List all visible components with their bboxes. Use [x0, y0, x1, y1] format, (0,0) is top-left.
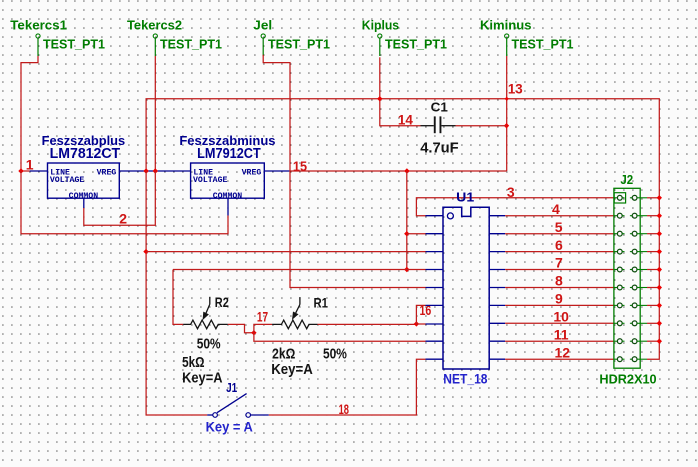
wire net 17 junction up to R1	[254, 324, 272, 332]
svg-text:18: 18	[339, 401, 350, 417]
wire net Tekercs2 drop	[154, 56, 156, 171]
svg-text:6: 6	[555, 237, 563, 253]
svg-text:15: 15	[293, 158, 307, 174]
svg-text:Tekercs2: Tekercs2	[127, 18, 182, 33]
svg-text:TEST_PT1: TEST_PT1	[268, 36, 330, 51]
svg-text:14: 14	[398, 111, 413, 127]
label 17	[257, 308, 268, 324]
svg-text:VOLTAGE: VOLTAGE	[193, 176, 227, 185]
label 1	[26, 156, 34, 172]
svg-text:5: 5	[555, 219, 563, 235]
svg-text:U1: U1	[456, 189, 474, 204]
op-amp U1 NET_18 DIP body	[443, 189, 489, 386]
pin stub reg1 COMMON	[83, 198, 85, 208]
svg-text:C1: C1	[431, 101, 448, 115]
junction rail-Tekercs1	[18, 168, 23, 173]
wire net 8 U1 to J2	[505, 287, 614, 289]
wire net to R2 left	[173, 270, 183, 325]
wire net 7 row from R2	[173, 269, 407, 271]
svg-text:HDR2X10: HDR2X10	[599, 371, 656, 386]
voltage regulator U2 Feszszabplus LM7812CT	[42, 133, 126, 201]
svg-text:TEST_PT1: TEST_PT1	[43, 36, 105, 51]
wire net 11 U1 to J2	[505, 340, 614, 342]
junction C1 right	[504, 123, 509, 128]
wire net 1 Tekercs1 drop	[21, 56, 38, 171]
wire net 4 U1 to J2	[505, 215, 614, 217]
pin stub reg2 COMMON	[227, 198, 229, 215]
svg-text:NET_18: NET_18	[443, 371, 488, 386]
wire J2 right pin 5 stub	[647, 267, 662, 272]
svg-text:4.7uF: 4.7uF	[420, 140, 459, 157]
wire net 2 reg1 common	[84, 171, 156, 225]
label 9	[555, 291, 563, 307]
svg-text:J1: J1	[226, 381, 237, 395]
U1 left pin stubs	[426, 216, 444, 360]
pin stub reg1 LINE	[30, 170, 48, 172]
wire net 14 Kiplus drop	[379, 57, 381, 99]
svg-text:Key=A: Key=A	[271, 362, 313, 378]
wire net 9 U1 to J2	[505, 304, 614, 306]
svg-text:3: 3	[507, 184, 515, 200]
wire net 16 link pin6	[416, 305, 425, 324]
label 7	[555, 255, 563, 271]
svg-text:R1: R1	[314, 294, 329, 310]
wire net 3 U1 pin1 to J2 pin1	[416, 198, 614, 216]
wire J2 right pin 8 stub	[647, 321, 662, 326]
svg-text:Key=A: Key=A	[182, 371, 223, 387]
label 2	[119, 210, 127, 226]
pin stub reg1 VREG to reg2 LINE	[119, 170, 190, 172]
svg-text:VREG: VREG	[242, 168, 262, 177]
svg-text:2: 2	[119, 210, 127, 226]
junction U1 pin4	[404, 267, 409, 272]
wire net 11 junction down row	[254, 333, 426, 342]
wire net 12 U1 to J2	[505, 358, 614, 360]
junction rail-U1 column	[404, 168, 409, 173]
wire net 15 rail	[289, 170, 506, 172]
svg-text:2kΩ: 2kΩ	[272, 347, 296, 363]
test point Tekercs1 TEST_PT1	[10, 18, 105, 57]
wire net 13 Kiminus drop	[506, 56, 508, 99]
wire net 5 U1 to J2	[505, 233, 614, 235]
wire net 7 U1 to J2	[505, 269, 614, 271]
wire net 14 top line	[146, 99, 659, 198]
label 12	[555, 344, 571, 360]
label 4	[552, 201, 560, 217]
wire net 6 U1 to J2	[505, 251, 614, 253]
wire J2 right pin 1 stub	[647, 195, 662, 200]
label 6	[555, 237, 563, 253]
svg-text:17: 17	[257, 308, 268, 324]
wire J2 right pin 6 stub	[647, 285, 662, 290]
capacitor C1 4.7uF	[420, 101, 459, 157]
svg-text:13: 13	[508, 81, 523, 97]
junction Kiminus top	[505, 97, 509, 101]
wire J2 right pin 3 stub	[647, 231, 662, 236]
wire net 2 long line	[21, 171, 228, 234]
wire J2 right pin 9 stub	[647, 339, 662, 344]
label 14	[398, 111, 413, 127]
wire net 17 R2 to junction	[228, 324, 254, 332]
junction U1 pin2	[404, 231, 409, 236]
svg-text:10: 10	[553, 309, 569, 325]
svg-text:7: 7	[555, 255, 563, 271]
wire net 13 right rail	[647, 198, 659, 359]
test point Jel TEST_PT1	[253, 18, 330, 57]
svg-text:5kΩ: 5kΩ	[182, 355, 205, 371]
svg-text:Kiminus: Kiminus	[480, 18, 532, 33]
wire J2 right pin 7 stub	[647, 303, 662, 308]
junction rail-Tekercs2	[153, 168, 158, 173]
junction rail-reg1out	[143, 168, 148, 173]
test point Kiplus TEST_PT1	[362, 18, 447, 57]
wire net 14 C1 left leg	[380, 99, 421, 126]
wire net 6 row to U1 pin3	[146, 251, 426, 253]
wire net 1 into reg1	[21, 170, 30, 172]
svg-text:1: 1	[26, 156, 34, 172]
label 8	[555, 273, 563, 289]
svg-text:TEST_PT1: TEST_PT1	[385, 36, 447, 51]
connector J2 HDR2X10	[599, 173, 656, 387]
svg-text:TEST_PT1: TEST_PT1	[512, 36, 574, 51]
wire net 13 Kiminus to rail	[506, 99, 508, 171]
wire net 16 stub pin7	[416, 323, 425, 325]
svg-text:50%: 50%	[197, 337, 221, 353]
potentiometer R1 2kOhm 50% Key=A	[271, 294, 347, 378]
svg-text:R2: R2	[215, 294, 229, 310]
pin stub reg2 VREG	[264, 170, 289, 172]
svg-text:16: 16	[420, 302, 432, 318]
junction row net6	[143, 249, 148, 254]
svg-text:LM7912CT: LM7912CT	[197, 146, 261, 162]
label 3	[507, 184, 515, 200]
svg-text:Key = A: Key = A	[206, 419, 253, 435]
label 11	[554, 326, 569, 342]
svg-text:4: 4	[552, 201, 560, 217]
svg-text:11: 11	[554, 326, 569, 342]
svg-text:9: 9	[555, 291, 563, 307]
label 13	[508, 81, 523, 97]
svg-text:Kiplus: Kiplus	[362, 18, 399, 33]
potentiometer R2 5kOhm 50% Key=A	[182, 294, 229, 387]
svg-text:VOLTAGE: VOLTAGE	[50, 176, 84, 185]
voltage regulator U3 Feszszabminus LM7912CT	[179, 133, 275, 201]
svg-text:12: 12	[555, 344, 571, 360]
switch J1 Key = A	[206, 381, 269, 434]
label 18	[339, 401, 350, 417]
junction net 17	[251, 330, 256, 335]
wire net Jel loop to U1 pin5	[263, 55, 425, 288]
wire net 16 R1 to U1 pin7	[318, 323, 417, 325]
wire net 5 stub	[407, 233, 426, 235]
wire net 7 stub	[407, 269, 426, 271]
svg-text:J2: J2	[620, 173, 633, 187]
label 10	[553, 309, 569, 325]
wire net 13 C1 right lead	[456, 125, 507, 127]
U1 right pin stubs	[489, 216, 505, 360]
wire J2 right pin 4 stub	[647, 249, 662, 254]
svg-text:Jel: Jel	[253, 18, 272, 33]
wire net 15 column to pins 2 and 4	[406, 171, 408, 270]
label 16	[420, 302, 432, 318]
wire J2 right pin 2 stub	[647, 213, 662, 218]
junction net 16	[414, 321, 419, 326]
test point Kiminus TEST_PT1	[480, 18, 574, 57]
wire net from reg1 out down to J1	[146, 171, 207, 415]
svg-text:LM7812CT: LM7812CT	[50, 146, 121, 162]
wire net 18 J1 right to U1 pin9	[269, 359, 426, 415]
wire net 10 U1 to J2	[505, 322, 614, 324]
label 15	[293, 158, 307, 174]
label 5	[555, 219, 563, 235]
test point Tekercs2 TEST_PT1	[127, 18, 222, 57]
svg-text:Tekercs1: Tekercs1	[10, 18, 67, 33]
svg-text:50%: 50%	[323, 347, 347, 363]
svg-text:TEST_PT1: TEST_PT1	[160, 36, 222, 51]
svg-text:8: 8	[555, 273, 563, 289]
svg-text:VREG: VREG	[97, 168, 117, 177]
junction Kiplus top	[377, 96, 382, 101]
